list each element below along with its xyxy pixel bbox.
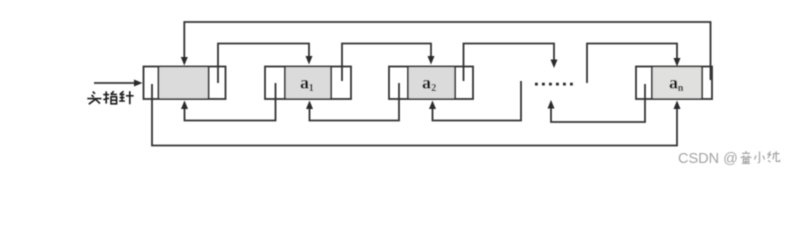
data label an	[669, 73, 684, 94]
wire: dots.next to an (top)	[587, 44, 681, 84]
ellipsis dots between a2 and an	[535, 83, 573, 86]
node A1 box	[265, 67, 351, 100]
wire: dots.prev to a2 (bottom)	[429, 81, 521, 121]
wire: an.next loop to head (outer top)	[181, 22, 711, 80]
data label a2	[422, 73, 436, 94]
wire: a2.prev to a1 (bottom)	[306, 83, 399, 121]
wire: a2.next to dots (top)	[464, 44, 558, 82]
node HEAD box	[144, 67, 226, 100]
svg-text:a: a	[300, 73, 309, 93]
svg-text:CSDN @: CSDN @	[678, 151, 738, 167]
svg-text:n: n	[678, 83, 684, 94]
watermark glyph 小	[755, 152, 765, 164]
watermark CSDN @童小纯	[678, 151, 738, 167]
watermark glyph 童	[741, 151, 780, 163]
glyph 针	[119, 91, 133, 104]
wire: head.prev loop to an (outer bottom)	[152, 84, 681, 146]
glyph 指	[103, 91, 117, 104]
svg-text:1: 1	[309, 83, 314, 94]
svg-text:a: a	[422, 73, 431, 93]
data label a1	[300, 73, 314, 94]
wire: head.next to a1 (top)	[218, 44, 313, 84]
wire: a1.next to a2 (top)	[342, 44, 435, 82]
wire: an.prev to dots (bottom)	[548, 84, 646, 122]
svg-text:a: a	[669, 73, 678, 93]
glyph 头	[87, 92, 101, 105]
svg-text:2: 2	[431, 83, 436, 94]
label 头指针 (head pointer text), hand-drawn glyphs	[87, 91, 133, 104]
watermark glyph 纯	[768, 151, 780, 162]
node AN box	[636, 67, 712, 100]
head pointer arrow	[94, 80, 143, 87]
wire: a1.prev to head (bottom)	[181, 83, 276, 121]
node A2 box	[389, 67, 473, 100]
